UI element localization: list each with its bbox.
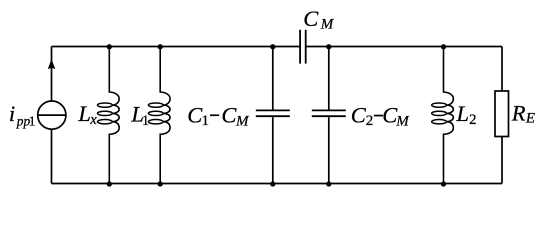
svg-text:2: 2 — [366, 113, 374, 129]
svg-text:x: x — [89, 112, 97, 128]
svg-text:R: R — [511, 100, 526, 125]
svg-text:M: M — [320, 16, 335, 32]
svg-text:1: 1 — [142, 113, 150, 129]
svg-text:C: C — [351, 103, 367, 128]
svg-text:1: 1 — [202, 113, 210, 129]
svg-text:i: i — [9, 101, 15, 126]
svg-text:C: C — [221, 103, 237, 128]
svg-text:L: L — [456, 101, 470, 126]
svg-text:1: 1 — [29, 114, 36, 129]
svg-text:2: 2 — [469, 112, 477, 128]
svg-text:E: E — [525, 111, 535, 127]
svg-text:C: C — [303, 6, 319, 31]
svg-text:L: L — [77, 101, 91, 126]
svg-text:M: M — [395, 113, 410, 129]
svg-text:M: M — [235, 113, 250, 129]
